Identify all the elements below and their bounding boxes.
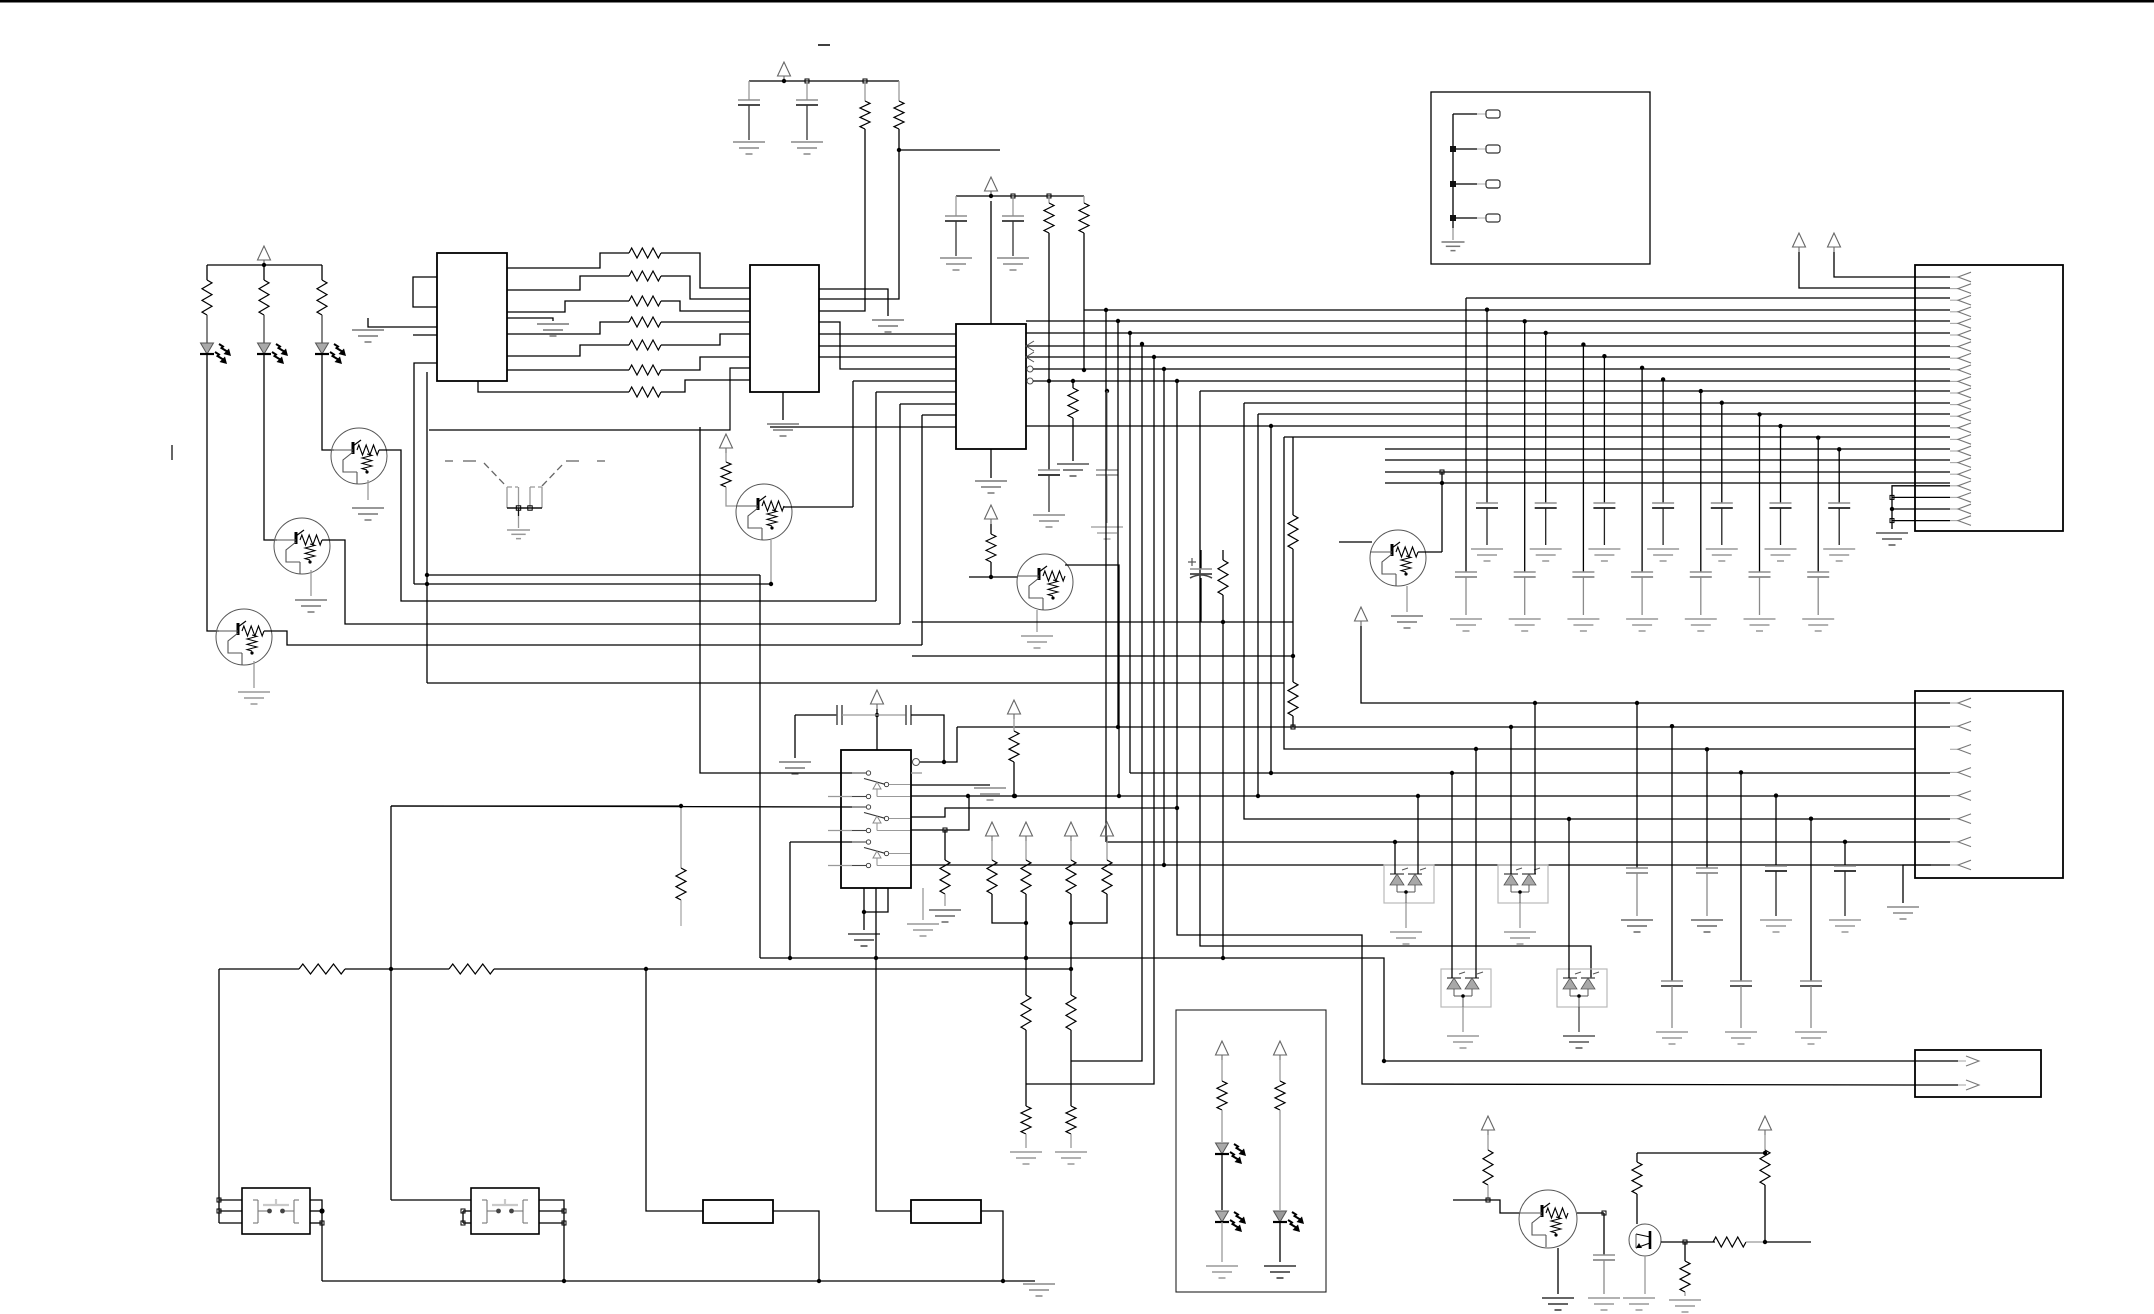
junction v3a: [989, 194, 993, 198]
vp13 stem: [1487, 1135, 1489, 1150]
rp pair1 b: [1025, 894, 1027, 923]
wire mid 622: [912, 621, 1293, 623]
power VR4: [1101, 822, 1114, 836]
capacitor Cb1707: [1696, 867, 1718, 869]
junction z1a: [1393, 840, 1397, 844]
junction rp7: [1012, 794, 1016, 798]
wire led3 top: [321, 265, 323, 280]
J1 pin 4 arrow: [1950, 311, 1958, 313]
junction rp2: [1069, 921, 1073, 925]
junction j4c: [1450, 215, 1456, 221]
TVS diode pair D1: [1384, 865, 1434, 903]
gray col 6: [1817, 438, 1819, 572]
LED D3: [316, 343, 329, 354]
wire pin1 right: [1384, 1060, 1915, 1062]
wire u2 pin 289: [819, 289, 888, 316]
r_t4 dn: [726, 487, 737, 506]
junction z2b: [1533, 701, 1537, 705]
J1 pin 8 arrow: [1950, 357, 1958, 359]
v1685 dn: [1684, 1292, 1686, 1296]
resistor RP1: [987, 860, 997, 894]
wire 1293 top: [1292, 437, 1294, 515]
junction 427-584: [425, 582, 429, 586]
J1 pin 22 arrow: [1950, 520, 1958, 522]
J2 pin 4 arrow: [1950, 771, 1958, 773]
junction drop1741: [1739, 770, 1743, 774]
wire q2 emitter: [310, 570, 312, 596]
junction drop1811: [1809, 817, 1813, 821]
resistor R_t2: [894, 101, 904, 129]
rp2 down b: [1070, 1030, 1072, 1061]
capacitor C_e +: [1188, 561, 1196, 563]
junction r681: [679, 804, 683, 808]
u4 pin r 830: [911, 796, 969, 830]
junction bt3: [1001, 1279, 1005, 1283]
J1 pin 7 arrow: [1950, 346, 1958, 348]
z3 gnd stem: [1462, 1007, 1464, 1032]
bus1 y368: [1033, 368, 1950, 370]
r1637 dn: [1636, 1194, 1638, 1224]
dark col 6: [1838, 449, 1840, 503]
ground c2: [791, 141, 823, 143]
J3 pin2 arrow: [1915, 1084, 1958, 1086]
wire u1 575 branch: [414, 583, 771, 585]
u4 pin l 796: [828, 796, 852, 798]
transistor Q3: [216, 609, 272, 665]
junction r_u3a: [1047, 379, 1051, 383]
junction 1164-865: [1162, 863, 1166, 867]
junction rp2 969: [1069, 967, 1073, 971]
vcc4 stem: [725, 453, 727, 462]
drop 1707: [1706, 749, 1708, 868]
vcc8 stem: [1361, 626, 1950, 703]
resistor R_led1: [202, 280, 212, 315]
power VR3: [1065, 822, 1078, 836]
wire r_u3b lead: [1083, 196, 1085, 203]
resistor RN7: [629, 387, 661, 397]
capacitor Cd5: [1770, 502, 1792, 504]
fan v1258: [1257, 414, 1259, 796]
IC U1: [437, 253, 507, 381]
bus2 y727: [957, 726, 1950, 728]
wire q3 emitter: [253, 661, 255, 688]
junction z3a: [1450, 771, 1454, 775]
wire u1 down long: [427, 682, 1284, 684]
junction 1223-958: [1221, 956, 1225, 960]
gray col 1: [1524, 321, 1526, 572]
wire cap c1 lead: [748, 81, 750, 100]
ground Cg3: [1626, 618, 1658, 620]
crystal stem: [518, 508, 520, 516]
wire c_u3b down: [1106, 391, 1108, 470]
junction drop1776: [1774, 793, 1778, 797]
ground bottom: [1023, 1283, 1055, 1285]
sw cap line left: [795, 714, 837, 716]
connector J1: [1915, 265, 2063, 531]
wire r3-led3: [321, 315, 323, 343]
j4 stub3b: [1477, 183, 1486, 185]
wire led2 down: [264, 354, 277, 540]
wire u1 r1: [507, 253, 629, 268]
resistor RP2: [1021, 860, 1031, 894]
wire ecap top: [1200, 550, 1202, 569]
power VL1: [1216, 1041, 1229, 1055]
J1 pin 19 arrow: [1950, 485, 1958, 487]
resistor RM1: [1021, 995, 1031, 1030]
r1637 top: [1636, 1153, 1638, 1162]
fan v1271: [1270, 426, 1272, 773]
junction gcol2: [1581, 342, 1585, 346]
J1 pin 6 arrow: [1950, 334, 1958, 336]
transistor Q2: [274, 518, 330, 574]
wire rn7-u2: [661, 380, 750, 392]
z1a feed: [1394, 842, 1396, 874]
resistor R1073: [1068, 388, 1078, 418]
ground z2: [1504, 931, 1536, 933]
rp1 low lead: [1025, 1084, 1027, 1106]
junction fan1130: [1128, 331, 1132, 335]
wire vp10: [1834, 252, 1950, 277]
junction q5c: [1013, 794, 1017, 798]
bus1 y426: [1026, 425, 1950, 427]
wire 1153: [1637, 1152, 1765, 1154]
u4 pin r 773g: [911, 772, 922, 774]
resistor R946: [940, 860, 950, 894]
connector J3: [1915, 1050, 2041, 1097]
resistor R_e: [1218, 560, 1228, 595]
junction z1b: [1416, 794, 1420, 798]
wire led3 down: [322, 354, 334, 450]
ground Cd2: [1588, 548, 1620, 550]
J1 pin 5 arrow: [1950, 322, 1958, 324]
left tick mark: [171, 445, 173, 460]
wire q8 right: [1765, 1241, 1811, 1243]
q8 emitter dn: [1644, 1256, 1646, 1294]
dark col 2: [1603, 356, 1605, 503]
ground r946: [929, 909, 961, 911]
bus1 y379: [1033, 380, 1950, 382]
wire r1073 lead: [1072, 381, 1074, 388]
wire r_t1 down: [819, 129, 865, 311]
wire c_u3a gnd: [1048, 475, 1050, 512]
trunk 969c: [494, 968, 1071, 970]
sw cap right: [911, 715, 944, 762]
j4 contact 3: [1486, 180, 1500, 188]
junction z4a: [1567, 817, 1571, 821]
wire u2-u3 357: [819, 356, 956, 358]
junction u4 bot: [862, 910, 866, 914]
J2 pin8 gnd: [1903, 865, 1931, 903]
junction rp1: [1024, 921, 1028, 925]
wire rn6-u2: [661, 357, 750, 370]
vcc5 stem a: [990, 524, 992, 534]
u4 pin l 806: [391, 806, 852, 807]
wire q1 collector: [379, 450, 876, 601]
wire r1073 gnd: [1072, 418, 1074, 461]
resistor R_br2: [1632, 1162, 1642, 1194]
tick mark top: [818, 44, 830, 46]
junction dcol0: [1485, 307, 1489, 311]
crystal X1 dots: [516, 506, 520, 510]
J2 pin 8 arrow: [1950, 864, 1958, 866]
wire 806 left: [391, 805, 681, 807]
junction vcc2: [782, 79, 786, 83]
dark col 4: [1721, 403, 1723, 503]
junction dcol6: [1837, 447, 1841, 451]
j4 stub2b: [1477, 148, 1486, 150]
junction drop1707: [1705, 747, 1709, 751]
drop 1637: [1636, 703, 1638, 868]
wire q2 collector: [322, 540, 900, 624]
LED D2: [258, 343, 271, 354]
resistor R_bl2: [449, 964, 494, 974]
wire u1 r7: [478, 381, 629, 392]
J1 gnd pin2: [1892, 496, 1950, 498]
junction 1293-727: [1291, 725, 1295, 729]
wire r_u3a down: [1048, 233, 1050, 381]
wire u1 left vert: [426, 372, 428, 683]
LED DL3: [1274, 1211, 1287, 1222]
wire c3 lead: [955, 196, 957, 216]
gray col 2 dn: [1582, 577, 1584, 615]
J1 pin 14 arrow: [1950, 427, 1958, 429]
wire mid 656: [912, 655, 1293, 657]
wire vcc2 rail: [749, 80, 899, 82]
resistor RN6: [629, 365, 661, 375]
wire u1 r6: [507, 369, 629, 371]
capacitor Cb1845: [1834, 865, 1856, 867]
wire q6 emitter: [1406, 586, 1408, 612]
wire 1293 bot: [1292, 716, 1294, 727]
ground q3: [238, 691, 270, 693]
wire c_u3b gnd: [1106, 475, 1108, 523]
drop 1776 dn: [1775, 871, 1777, 916]
resistor R_bl1: [299, 964, 345, 974]
junction 1293-656: [1291, 654, 1295, 658]
dark col 5: [1780, 426, 1782, 503]
power VCC5: [985, 505, 998, 519]
rp2 low lead: [1070, 1061, 1072, 1106]
bus1 y460: [1385, 459, 1950, 461]
power VP14: [1759, 1116, 1772, 1130]
wire r_e top: [1222, 550, 1224, 560]
J2 pin 5 arrow: [1950, 795, 1958, 797]
ground Cd0: [1471, 548, 1503, 550]
u4 pin r 785: [911, 784, 990, 786]
power VCC7: [1008, 700, 1021, 714]
rbr5 dn: [1764, 1185, 1766, 1242]
junction rp1 958: [1024, 956, 1028, 960]
vcc7 stem: [1013, 719, 1015, 731]
k1 pins l2: [219, 1210, 242, 1212]
rbr1 dn: [1487, 1185, 1489, 1200]
power VL2: [1274, 1041, 1287, 1055]
IC U4 analog switch: [841, 750, 911, 888]
z3b feed: [1475, 749, 1477, 978]
k2 pins l2: [463, 1210, 471, 1212]
ground rl1: [1010, 1151, 1042, 1153]
capacitor Cd2: [1593, 502, 1615, 504]
gray col 0 dn: [1465, 577, 1467, 615]
relay K1: [242, 1188, 310, 1234]
capacitor C1: [738, 99, 760, 101]
J1 pin 12 arrow: [1950, 404, 1958, 406]
bottom gnd stub: [1003, 1280, 1035, 1282]
junction z2a: [1509, 725, 1513, 729]
rbr4 left: [1746, 1241, 1765, 1243]
resistor RP4: [1102, 860, 1112, 894]
drop 1845 dn: [1844, 871, 1846, 916]
junction j4a: [1450, 146, 1456, 152]
resistor R_br1: [1483, 1150, 1493, 1185]
j4 vert2: [1452, 228, 1454, 240]
bus1 y391: [1200, 390, 1950, 392]
wire q5 emitter dn: [1036, 610, 1038, 632]
box J4: [1431, 92, 1650, 264]
wire nest v922: [921, 415, 923, 645]
junction q6: [1440, 481, 1444, 485]
wire r_t2 lead: [898, 81, 900, 101]
vr1 stem: [991, 841, 993, 860]
resistor RN3: [629, 296, 661, 306]
drop 1811: [1810, 819, 1812, 981]
junction 1271-773: [1269, 771, 1273, 775]
junction sw cap: [875, 713, 879, 717]
ground Cg0: [1450, 618, 1482, 620]
J1 pin 9 arrow: [1950, 369, 1958, 371]
u3 circle pin 369: [1027, 366, 1033, 372]
wire u1 r5: [507, 345, 629, 356]
power VR2: [1020, 822, 1033, 836]
ground q5: [1021, 635, 1053, 637]
power VCC8: [1355, 607, 1368, 621]
z2 gnd stem: [1519, 903, 1521, 928]
switch S1: [852, 772, 866, 774]
capacitor Cd3: [1652, 502, 1674, 504]
ground z1: [1390, 931, 1422, 933]
junction dcol4: [1720, 401, 1724, 405]
junction r_u3b: [1082, 368, 1086, 372]
wire rn3-u2: [661, 301, 750, 311]
wire u1 r2: [507, 276, 629, 290]
dark col 3 dn: [1662, 508, 1664, 545]
junction 1073-381: [1071, 379, 1075, 383]
junction fan1154: [1152, 355, 1156, 359]
resistor R_t4: [721, 462, 731, 487]
u4 bot 864: [863, 888, 865, 930]
ground Cb1845: [1829, 919, 1861, 921]
z2b feed: [1534, 703, 1536, 874]
junction r946: [943, 828, 947, 832]
bus1 y414: [1258, 413, 1950, 415]
u4 pin l 773: [700, 427, 852, 773]
J1 pin 16 arrow: [1950, 450, 1958, 452]
drop 1811 dn: [1810, 986, 1812, 1028]
J1 pin 2 arrow: [1950, 288, 1958, 290]
wire u1 pin l3: [414, 363, 437, 584]
resistor R_u3a: [1044, 203, 1054, 233]
z2a feed: [1510, 727, 1512, 874]
u4 pin l 830: [828, 830, 852, 832]
power VCC1: [258, 246, 271, 260]
J1 pin 15 arrow: [1950, 438, 1958, 440]
capacitor Cd1: [1535, 502, 1557, 504]
bus2 y773: [1130, 772, 1950, 774]
q8 out: [1661, 1241, 1715, 1243]
ground J1: [1876, 532, 1908, 534]
transistor Q1: [331, 428, 387, 484]
J2 pin 2 arrow: [1950, 725, 1958, 727]
j4 stub1b: [1477, 113, 1486, 115]
z4 gnd stem: [1578, 1007, 1580, 1032]
dark col 2 dn: [1603, 508, 1605, 545]
dark col 3: [1662, 379, 1664, 503]
bottom trunk: [322, 1280, 1003, 1282]
v1223 down: [1222, 622, 1224, 958]
k1 pins l1: [219, 1199, 242, 1201]
junction u4 796: [966, 794, 970, 798]
ground u2: [767, 423, 799, 425]
gray col 6 dn: [1817, 577, 1819, 615]
J2 pin 6 arrow: [1950, 818, 1958, 820]
power VCC3: [985, 177, 998, 191]
wire q5 collector: [1065, 565, 1119, 796]
capacitor C_e: [1190, 568, 1212, 570]
wire vcc3 rail: [956, 195, 1084, 197]
junction dcol2: [1602, 354, 1606, 358]
J2 pin 7 arrow: [1950, 841, 1958, 843]
f1 lead l: [646, 969, 703, 1211]
wire r1-led1: [206, 315, 208, 343]
wire q6 collector: [1418, 551, 1442, 553]
junction k2b: [461, 1221, 465, 1225]
transistor Q4: [736, 484, 792, 540]
power VR1: [986, 822, 999, 836]
ground Cd6: [1823, 548, 1855, 550]
j4 stub4b: [1477, 217, 1486, 219]
junction q8a: [1683, 1240, 1687, 1244]
junction v3b: [1011, 194, 1015, 198]
capacitor Cg0: [1455, 571, 1477, 573]
resistor R_p7: [1009, 731, 1019, 762]
power VP13: [1482, 1116, 1495, 1130]
bus1 y437: [1284, 436, 1950, 438]
capacitor C_s1: [836, 705, 838, 725]
ground c_u3b: [1091, 526, 1123, 528]
wire c_u3a down: [1048, 381, 1050, 470]
junction tr2: [644, 967, 648, 971]
fan v1284: [1284, 437, 1916, 749]
LED D1: [201, 343, 214, 354]
ground u4 bot: [848, 933, 880, 935]
fan v1118: [1117, 321, 1119, 727]
ground lbox1: [1206, 1265, 1238, 1267]
wire ecap dn: [1200, 578, 1202, 622]
resistor RP3: [1066, 860, 1076, 894]
wire c3 gnd: [955, 221, 957, 256]
power VP9: [1793, 233, 1806, 247]
j4 contact 4: [1486, 214, 1500, 222]
bus2 y842: [1106, 841, 1950, 843]
v1685: [1684, 1242, 1686, 1261]
ground Cd5: [1765, 548, 1797, 550]
relay K2: [471, 1188, 539, 1234]
dark col 0: [1486, 310, 1488, 503]
rp1 down b: [1025, 1030, 1027, 1084]
J1 pin 11 arrow: [1950, 392, 1958, 394]
junction k2r3: [562, 1221, 566, 1225]
wire u1 r4: [507, 322, 629, 334]
